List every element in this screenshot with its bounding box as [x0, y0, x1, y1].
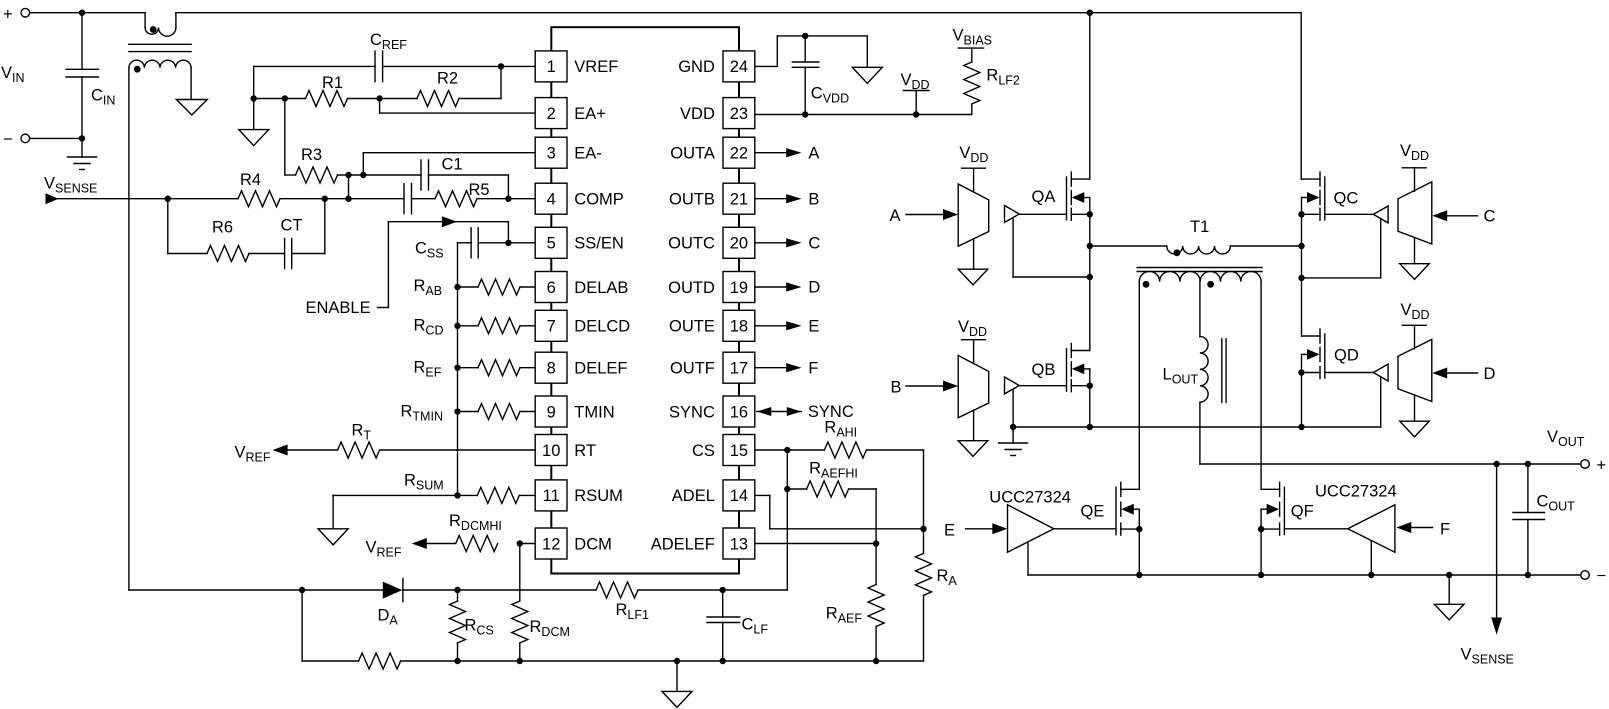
svg-text:4: 4 [547, 191, 556, 209]
svg-text:12: 12 [542, 535, 560, 553]
svg-text:CSS: CSS [415, 240, 444, 261]
svg-text:CVDD: CVDD [811, 85, 849, 106]
svg-text:D: D [808, 279, 820, 297]
svg-text:EA-: EA- [574, 145, 602, 163]
svg-text:RLF1: RLF1 [616, 601, 650, 622]
svg-text:UCC27324: UCC27324 [989, 489, 1071, 507]
svg-text:R2: R2 [437, 70, 458, 88]
svg-text:15: 15 [730, 442, 748, 460]
svg-text:R6: R6 [212, 219, 233, 237]
svg-text:DA: DA [378, 607, 399, 628]
svg-text:RLF2: RLF2 [986, 67, 1020, 88]
svg-text:22: 22 [730, 145, 748, 163]
svg-text:A: A [808, 144, 819, 162]
svg-text:CLF: CLF [742, 616, 769, 637]
svg-text:OUTA: OUTA [670, 145, 715, 163]
svg-text:VOUT: VOUT [1547, 428, 1585, 449]
svg-text:D: D [1484, 365, 1496, 383]
svg-text:RAB: RAB [414, 277, 443, 298]
svg-text:QF: QF [1291, 503, 1314, 521]
svg-text:RSUM: RSUM [574, 487, 623, 505]
svg-text:VBIAS: VBIAS [953, 27, 993, 48]
svg-text:CIN: CIN [91, 87, 115, 108]
svg-text:SYNC: SYNC [669, 403, 715, 421]
svg-text:ENABLE: ENABLE [306, 299, 371, 317]
svg-text:19: 19 [730, 279, 748, 297]
svg-text:23: 23 [730, 105, 748, 123]
svg-text:3: 3 [547, 145, 556, 163]
svg-text:18: 18 [730, 318, 748, 336]
svg-text:UCC27324: UCC27324 [1315, 483, 1397, 501]
svg-text:RDCM: RDCM [530, 618, 570, 639]
svg-text:R5: R5 [469, 181, 490, 199]
svg-text:VDD: VDD [958, 318, 987, 339]
svg-text:QC: QC [1334, 190, 1359, 208]
svg-text:B: B [808, 190, 819, 208]
svg-text:RCS: RCS [465, 617, 494, 638]
svg-text:OUTC: OUTC [668, 235, 715, 253]
svg-text:VREF: VREF [235, 444, 271, 465]
svg-text:E: E [944, 522, 955, 540]
svg-text:COMP: COMP [574, 191, 624, 209]
svg-text:+: + [1597, 457, 1607, 475]
svg-text:E: E [808, 317, 819, 335]
svg-text:REF: REF [414, 359, 442, 380]
svg-text:QD: QD [1334, 347, 1359, 365]
svg-text:DCM: DCM [574, 535, 612, 553]
svg-text:CREF: CREF [370, 31, 407, 52]
svg-text:+: + [3, 6, 13, 24]
svg-text:B: B [891, 379, 902, 397]
svg-text:VDD: VDD [1401, 301, 1430, 322]
svg-text:VDD: VDD [680, 105, 715, 123]
svg-text:DELAB: DELAB [574, 279, 628, 297]
svg-text:QE: QE [1081, 503, 1105, 521]
svg-text:17: 17 [730, 360, 748, 378]
svg-text:VSENSE: VSENSE [44, 175, 97, 196]
svg-text:RTMIN: RTMIN [401, 402, 443, 423]
svg-text:9: 9 [547, 403, 556, 421]
svg-text:VIN: VIN [1, 64, 25, 85]
svg-text:EA+: EA+ [574, 105, 606, 123]
svg-text:−: − [1597, 567, 1607, 585]
svg-text:VDD: VDD [901, 71, 930, 92]
svg-text:R4: R4 [240, 171, 261, 189]
svg-text:OUTF: OUTF [670, 360, 715, 378]
svg-text:RAEFHI: RAEFHI [809, 460, 858, 481]
svg-text:13: 13 [730, 535, 748, 553]
svg-text:RAHI: RAHI [824, 419, 857, 440]
svg-text:RCD: RCD [414, 317, 444, 338]
svg-text:F: F [808, 359, 818, 377]
svg-text:SS/EN: SS/EN [574, 235, 624, 253]
svg-text:RT: RT [352, 422, 372, 443]
svg-text:−: − [3, 131, 13, 149]
svg-text:GND: GND [678, 58, 715, 76]
svg-text:ADELEF: ADELEF [651, 535, 715, 553]
svg-text:QA: QA [1032, 188, 1056, 206]
svg-text:5: 5 [547, 235, 556, 253]
svg-text:11: 11 [543, 487, 560, 505]
svg-text:F: F [1440, 521, 1450, 539]
svg-text:TMIN: TMIN [574, 403, 614, 421]
svg-text:RSUM: RSUM [404, 472, 444, 493]
svg-text:RDCMHI: RDCMHI [449, 512, 502, 533]
svg-text:A: A [890, 207, 901, 225]
svg-text:C: C [808, 234, 820, 252]
svg-text:10: 10 [542, 442, 560, 460]
svg-text:DELCD: DELCD [574, 318, 630, 336]
svg-text:QB: QB [1032, 361, 1056, 379]
svg-text:RA: RA [937, 567, 958, 588]
svg-text:21: 21 [730, 191, 748, 209]
svg-text:R3: R3 [301, 146, 322, 164]
svg-text:DELEF: DELEF [574, 360, 627, 378]
svg-text:8: 8 [547, 360, 556, 378]
svg-text:OUTD: OUTD [668, 279, 715, 297]
svg-text:20: 20 [730, 235, 748, 253]
svg-text:CS: CS [692, 442, 715, 460]
svg-text:RAEF: RAEF [826, 605, 863, 626]
svg-text:OUTE: OUTE [669, 318, 715, 336]
svg-text:T1: T1 [1190, 218, 1209, 236]
svg-text:OUTB: OUTB [669, 191, 715, 209]
svg-text:16: 16 [730, 403, 748, 421]
svg-text:R1: R1 [322, 74, 343, 92]
svg-text:VREF: VREF [574, 58, 618, 76]
svg-text:C: C [1484, 208, 1496, 226]
svg-text:2: 2 [547, 105, 556, 123]
svg-text:6: 6 [547, 279, 556, 297]
svg-text:LOUT: LOUT [1163, 366, 1199, 387]
svg-text:24: 24 [730, 58, 748, 76]
svg-text:VDD: VDD [959, 144, 988, 165]
svg-text:C1: C1 [442, 156, 463, 174]
svg-text:COUT: COUT [1537, 493, 1576, 514]
svg-text:1: 1 [547, 58, 556, 76]
svg-text:CT: CT [281, 217, 303, 235]
svg-text:14: 14 [730, 487, 748, 505]
svg-text:RT: RT [574, 442, 596, 460]
svg-text:7: 7 [547, 318, 556, 336]
svg-text:VREF: VREF [366, 539, 402, 560]
svg-text:ADEL: ADEL [672, 487, 715, 505]
svg-text:VSENSE: VSENSE [1461, 646, 1514, 667]
svg-text:VDD: VDD [1400, 142, 1429, 163]
